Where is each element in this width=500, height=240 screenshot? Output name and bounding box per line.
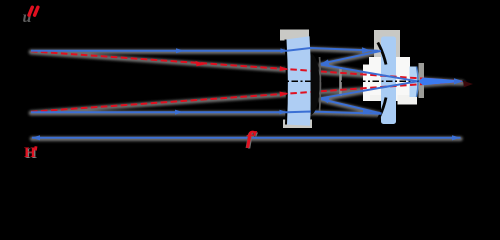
- svg-text:f′: f′: [247, 128, 258, 148]
- svg-text:H: H: [24, 145, 36, 161]
